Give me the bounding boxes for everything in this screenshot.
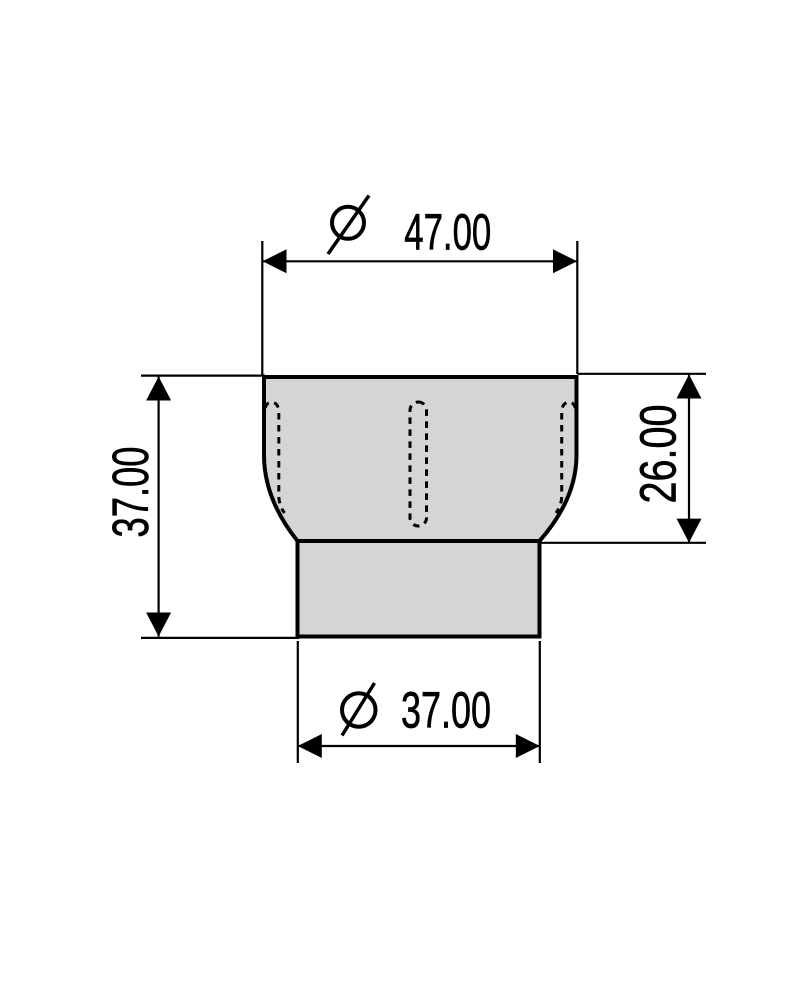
arrow bottom-right bbox=[516, 734, 540, 758]
dimension line right bbox=[688, 375, 690, 543]
extension line left-bottom bbox=[141, 637, 299, 639]
arrow bottom-left bbox=[298, 734, 322, 758]
body lower cylinder bbox=[298, 541, 540, 637]
svg-text:47.00: 47.00 bbox=[404, 204, 491, 261]
extension line right-bottom bbox=[541, 542, 706, 544]
diameter symbol bottom bbox=[342, 683, 376, 736]
extension line top-right bbox=[576, 241, 578, 374]
hidden slot right bbox=[556, 402, 576, 513]
extension line right-top bbox=[578, 373, 707, 375]
extension line left-top bbox=[141, 375, 265, 377]
hidden slot center bbox=[410, 402, 427, 526]
body upper bowl bbox=[264, 377, 577, 541]
arrow right-down bbox=[677, 519, 702, 543]
arrow right-up bbox=[677, 375, 702, 399]
dimension line bottom bbox=[298, 745, 540, 747]
dimension line top bbox=[263, 260, 577, 262]
extension line bottom-left bbox=[297, 641, 299, 763]
extension line top-left bbox=[261, 241, 263, 376]
svg-text:37.00: 37.00 bbox=[401, 682, 491, 739]
svg-text:37.00: 37.00 bbox=[102, 447, 159, 538]
arrow left-down bbox=[146, 613, 171, 637]
extension line bottom-right bbox=[539, 641, 541, 763]
diameter symbol top bbox=[328, 196, 369, 255]
svg-text:26.00: 26.00 bbox=[630, 405, 687, 504]
arrow left-up bbox=[146, 377, 171, 401]
dimension line left bbox=[158, 377, 160, 637]
hidden slot left bbox=[265, 402, 285, 513]
arrow top-left bbox=[263, 249, 287, 273]
arrow top-right bbox=[553, 249, 577, 273]
